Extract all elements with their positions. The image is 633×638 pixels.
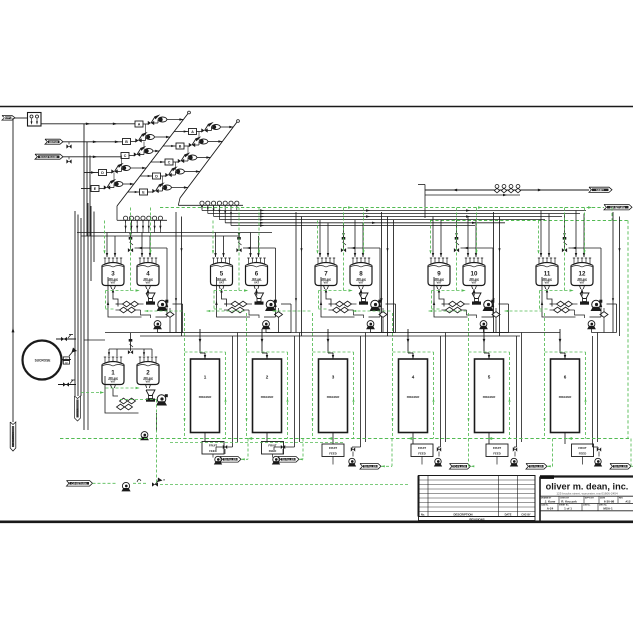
svg-text:VAT: VAT [437,281,442,285]
svg-text:FREEZER: FREEZER [327,395,340,399]
svg-text:300 gal: 300 gal [469,277,478,281]
svg-text:FREEZER: FREEZER [483,395,496,399]
svg-text:SKIRT: SKIRT [596,188,604,192]
svg-text:FRUIT: FRUIT [418,446,427,450]
svg-text:300 gal: 300 gal [217,277,226,281]
svg-text:C: C [168,161,171,165]
svg-text:VAT: VAT [111,281,116,285]
svg-text:FEED: FEED [209,449,216,453]
svg-text:FEED: FEED [269,449,276,453]
svg-text:FEED: FEED [493,451,500,455]
svg-text:300 gal: 300 gal [577,277,586,281]
svg-text:FEED: FEED [418,451,425,455]
svg-text:125 brooks street, worcester,: 125 brooks street, worcester, ma 01606-2… [556,492,618,496]
svg-text:3: 3 [332,375,335,380]
svg-text:CIP SUPPLY: CIP SUPPLY [11,432,15,447]
svg-text:1: 1 [204,375,207,380]
svg-text:FRUIT: FRUIT [578,446,587,450]
svg-text:MSA-1: MSA-1 [603,507,613,511]
svg-text:FRUIT: FRUIT [493,446,502,450]
svg-text:TO FILLER: TO FILLER [282,459,295,462]
svg-text:TO FILLER: TO FILLER [614,466,627,469]
svg-text:300 gal: 300 gal [434,277,443,281]
svg-text:11: 11 [544,271,551,278]
svg-text:6: 6 [255,271,259,278]
svg-text:A-24: A-24 [547,507,554,511]
svg-text:300 gal: 300 gal [108,277,117,281]
svg-text:10: 10 [471,271,478,278]
svg-text:1: 1 [111,370,115,377]
svg-text:300 gal: 300 gal [321,277,330,281]
svg-text:300 gal: 300 gal [143,277,152,281]
svg-text:2: 2 [146,370,150,377]
svg-text:300 gal: 300 gal [252,277,261,281]
svg-text:FREEZER: FREEZER [199,395,212,399]
svg-text:2: 2 [266,375,269,380]
svg-text:4: 4 [412,375,415,380]
svg-text:TO FILLER: TO FILLER [530,466,543,469]
svg-text:5: 5 [488,375,491,380]
svg-text:SAMPLE: SAMPLE [3,117,13,120]
svg-text:VAT: VAT [472,281,477,285]
svg-text:7: 7 [324,271,328,278]
svg-text:D: D [101,171,104,175]
svg-text:No.: No. [421,513,425,516]
svg-text:JOB No.: JOB No. [583,505,591,507]
svg-text:TO FILLER: TO FILLER [224,459,237,462]
svg-text:DATE: DATE [505,512,512,516]
svg-text:WATER: WATER [49,141,58,144]
svg-text:12: 12 [579,271,586,278]
svg-text:oliver m. dean, inc.: oliver m. dean, inc. [546,482,629,492]
svg-text:3: 3 [111,271,115,278]
svg-text:300 gal: 300 gal [108,376,117,380]
svg-text:FREEZER: FREEZER [559,395,572,399]
svg-text:FREEZER: FREEZER [407,395,420,399]
svg-text:VAT: VAT [545,281,550,285]
svg-text:VAT: VAT [111,380,116,384]
svg-text:300 gal: 300 gal [356,277,365,281]
svg-text:B: B [125,140,128,144]
svg-text:CIP RETURN: CIP RETURN [71,483,86,486]
svg-text:VAT: VAT [580,281,585,285]
svg-text:VAT: VAT [146,380,151,384]
svg-text:6-30-98: 6-30-98 [604,500,615,504]
svg-text:VAT: VAT [254,281,259,285]
svg-text:TO FILLER: TO FILLER [453,466,466,469]
svg-text:VAT: VAT [359,281,364,285]
svg-text:A: A [191,130,194,134]
svg-text:FREEZER: FREEZER [261,395,274,399]
svg-text:8: 8 [359,271,363,278]
svg-text:B: B [179,145,182,149]
svg-text:#12: #12 [625,500,630,504]
svg-text:VAT: VAT [219,281,224,285]
svg-text:5: 5 [220,271,224,278]
svg-text:J. Kane: J. Kane [545,500,556,504]
svg-text:SUGAR BLEND: SUGAR BLEND [40,156,58,159]
svg-text:D: D [155,175,158,179]
svg-text:9: 9 [437,271,441,278]
svg-text:SUCROSE: SUCROSE [35,359,51,363]
svg-text:REVISIONS: REVISIONS [469,517,484,521]
svg-text:300 gal: 300 gal [143,376,152,380]
svg-text:C: C [124,154,127,158]
svg-text:CHG BY: CHG BY [521,513,531,516]
svg-text:DESCRIPTION: DESCRIPTION [453,512,472,516]
svg-text:A: A [138,123,141,127]
svg-text:VAT: VAT [146,281,151,285]
svg-text:FEED: FEED [579,451,586,455]
svg-text:1 of 1: 1 of 1 [564,507,572,511]
svg-text:APP'D BY: APP'D BY [585,497,595,500]
svg-text:R. Kruczek: R. Kruczek [561,500,577,504]
svg-text:VAT: VAT [324,281,329,285]
svg-text:300 gal: 300 gal [542,277,551,281]
svg-text:WATER: WATER [76,408,79,417]
svg-text:TO FILLER: TO FILLER [364,466,377,469]
svg-text:6: 6 [564,375,567,380]
svg-text:FRUIT: FRUIT [329,446,338,450]
svg-text:FEED: FEED [329,451,336,455]
svg-text:4: 4 [146,271,150,278]
